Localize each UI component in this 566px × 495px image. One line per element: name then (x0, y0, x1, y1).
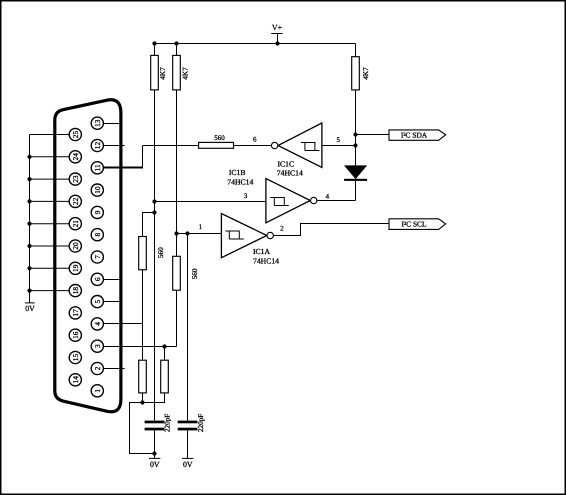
wire stub pin 21 to bus (30, 223, 70, 225)
pin 21 (69, 218, 81, 230)
svg-text:I²C SCL: I²C SCL (401, 220, 426, 229)
node R5 jog junction (152, 210, 156, 214)
pin 20 (69, 240, 81, 252)
pin 2 (91, 362, 103, 374)
svg-text:7: 7 (93, 255, 102, 259)
svg-text:1: 1 (93, 389, 102, 393)
svg-text:19: 19 (71, 264, 80, 272)
pin 24 (69, 151, 81, 163)
svg-text:22: 22 (71, 197, 80, 205)
svg-text:IC1C: IC1C (277, 159, 294, 168)
svg-text:8: 8 (93, 233, 102, 237)
svg-text:6: 6 (93, 277, 102, 281)
node bus junction pin 18 (27, 289, 31, 293)
svg-text:2: 2 (93, 366, 102, 370)
pin 13 (91, 117, 103, 129)
svg-text:0V: 0V (25, 304, 35, 313)
wire jog to R4 (143, 145, 199, 147)
wire pin 6 stub (103, 279, 119, 281)
wire pin 12 stub (103, 145, 124, 147)
svg-text:560: 560 (157, 247, 165, 258)
svg-text:1: 1 (199, 223, 203, 231)
resistor R4 560 horizontal (199, 134, 234, 148)
svg-text:9: 9 (93, 210, 102, 214)
svg-text:220pF: 220pF (197, 414, 205, 432)
wire R3 bottom to diode (355, 90, 357, 166)
svg-text:560: 560 (191, 268, 199, 279)
svg-text:3: 3 (93, 344, 102, 348)
svg-text:560: 560 (214, 134, 225, 142)
pin 11 (91, 162, 103, 174)
wire stub pin 25 to bus (30, 134, 70, 136)
svg-text:16: 16 (71, 331, 80, 339)
svg-text:21: 21 (71, 220, 80, 228)
node SDA flag junction (353, 132, 357, 136)
resistor R1 4K7 (151, 44, 167, 90)
wire pin 2 stub (103, 368, 124, 370)
pin 8 (91, 229, 103, 241)
wire jog to R5 (143, 213, 155, 237)
flag I2C SDA (389, 130, 446, 140)
wire pin 13 stub (103, 123, 121, 125)
ground 0V under C2 (182, 458, 193, 468)
wire pin 4 (103, 323, 142, 325)
ground 0V left bus (25, 303, 35, 313)
pin 25 (69, 128, 81, 140)
connector J1 DB25 outline (55, 100, 121, 412)
svg-text:2: 2 (280, 224, 284, 232)
wire R7 bottom (142, 393, 144, 403)
wire C2 top vertical (187, 234, 189, 421)
pin 19 (69, 262, 81, 274)
wire IC1B input (155, 201, 266, 203)
svg-text:74HC14: 74HC14 (227, 178, 253, 187)
pin 16 (69, 329, 81, 341)
wire IC1C input from SDA node (322, 145, 356, 147)
svg-text:13: 13 (93, 119, 102, 127)
svg-text:15: 15 (71, 354, 80, 362)
resistor R6 560 (173, 234, 199, 291)
svg-text:5: 5 (336, 136, 340, 144)
wire ground jog left (130, 403, 155, 454)
svg-text:12: 12 (93, 142, 102, 150)
node IC1A input junction R6 (174, 231, 178, 235)
svg-text:220pF: 220pF (164, 414, 172, 432)
wire pin 3 (103, 346, 176, 348)
svg-text:I²C SDA: I²C SDA (401, 131, 428, 140)
node bus junction pin 23 (27, 177, 31, 181)
wire stub pin 24 to bus (30, 156, 70, 158)
capacitor C1 220pF (145, 414, 172, 459)
svg-text:6: 6 (253, 135, 257, 143)
resistor R5 560 (139, 237, 165, 270)
pin 22 (69, 195, 81, 207)
op-amp IC1B 74HC14 inverter (227, 168, 317, 223)
svg-text:24: 24 (71, 153, 80, 161)
svg-text:14: 14 (71, 376, 80, 384)
flag I2C SCL (389, 219, 446, 230)
diode D1 (344, 166, 367, 201)
svg-text:4: 4 (326, 193, 330, 201)
wire stub pin 20 to bus (30, 245, 70, 247)
pin 23 (69, 173, 81, 185)
resistor R7 (139, 360, 147, 393)
wire stub pin 18 to bus (30, 290, 70, 292)
svg-text:4K7: 4K7 (362, 67, 370, 80)
svg-text:11: 11 (93, 164, 102, 171)
pin 12 (91, 139, 103, 151)
wire IC1A output with step to SCL (273, 224, 389, 236)
pin 17 (69, 307, 81, 319)
power V+ terminal (271, 23, 282, 44)
wire pin 5 stub (103, 301, 119, 303)
op-amp IC1A 74HC14 inverter (221, 214, 279, 266)
svg-text:4K7: 4K7 (182, 67, 190, 80)
pin 4 (91, 318, 103, 330)
svg-text:10: 10 (93, 186, 102, 194)
node R7/R8 ground junction (140, 400, 144, 404)
wire IC1C output to R4 (234, 145, 272, 147)
svg-text:23: 23 (71, 175, 80, 183)
svg-text:3: 3 (244, 192, 248, 200)
wire R8 bottom jog (143, 393, 165, 403)
node rail junction R1 (152, 41, 156, 45)
wire top V+ rail (155, 43, 356, 45)
pin 5 (91, 296, 103, 308)
pin 9 (91, 206, 103, 218)
svg-text:0V: 0V (150, 460, 160, 469)
svg-text:5: 5 (93, 299, 102, 303)
resistor R3 4K7 (352, 44, 370, 90)
wire R5 bottom to R7 (142, 270, 144, 360)
ground 0V under C1 (149, 458, 160, 468)
wire pin 11 jog vertical (142, 146, 144, 169)
pin 18 (69, 285, 81, 297)
wire left ground bus vertical (29, 135, 31, 303)
wire stub pin 19 to bus (30, 267, 70, 269)
svg-text:20: 20 (71, 242, 80, 250)
resistor R8 (161, 347, 169, 393)
wire R1 bottom to C1 (154, 90, 156, 421)
svg-text:4K7: 4K7 (159, 67, 167, 80)
svg-text:18: 18 (71, 287, 80, 295)
pin 1 (91, 385, 103, 397)
pin 10 (91, 184, 103, 196)
pin 6 (91, 273, 103, 285)
node pin 3 / R8 junction (162, 344, 166, 348)
svg-text:25: 25 (71, 131, 80, 139)
svg-text:0V: 0V (183, 460, 193, 469)
pin 3 (91, 340, 103, 352)
wire R2 bottom to IC1A input (176, 90, 178, 234)
node C1 ground junction (152, 451, 156, 455)
wire stub pin 23 to bus (30, 178, 70, 180)
svg-text:74HC14: 74HC14 (277, 168, 303, 177)
wire pin 11 horizontal (103, 167, 142, 169)
svg-text:V+: V+ (272, 23, 283, 32)
wire IC1A input (177, 233, 222, 235)
node bus junction pin 21 (27, 222, 31, 226)
capacitor C2 220pF (178, 414, 205, 459)
node bus junction pin 22 (27, 199, 31, 203)
wire R6 bottom to pin 3 wire (176, 290, 178, 346)
node SDA IC1C junction (353, 143, 357, 147)
pin 14 (69, 374, 81, 386)
node IC1A input junction C2 (185, 231, 189, 235)
wire stub pin 22 to bus (30, 200, 70, 202)
svg-text:4: 4 (93, 322, 102, 326)
svg-text:IC1B: IC1B (229, 168, 246, 177)
node IC1B input junction (152, 199, 156, 203)
resistor R2 4K7 (173, 44, 190, 90)
svg-text:17: 17 (71, 309, 80, 317)
pin 15 (69, 351, 81, 363)
svg-text:IC1A: IC1A (253, 247, 271, 256)
node bus junction pin 19 (27, 266, 31, 270)
node rail junction R2 (174, 41, 178, 45)
wire SDA to flag (356, 134, 390, 136)
node rail junction V+ (275, 41, 279, 45)
wire IC1B output to diode (317, 200, 356, 202)
svg-text:74HC14: 74HC14 (253, 256, 279, 265)
pin 7 (91, 251, 103, 263)
node bus junction pin 20 (27, 244, 31, 248)
op-amp IC1C 74HC14 inverter (mirrored, bubble on left apex) (271, 123, 322, 177)
node bus junction pin 24 (27, 155, 31, 159)
